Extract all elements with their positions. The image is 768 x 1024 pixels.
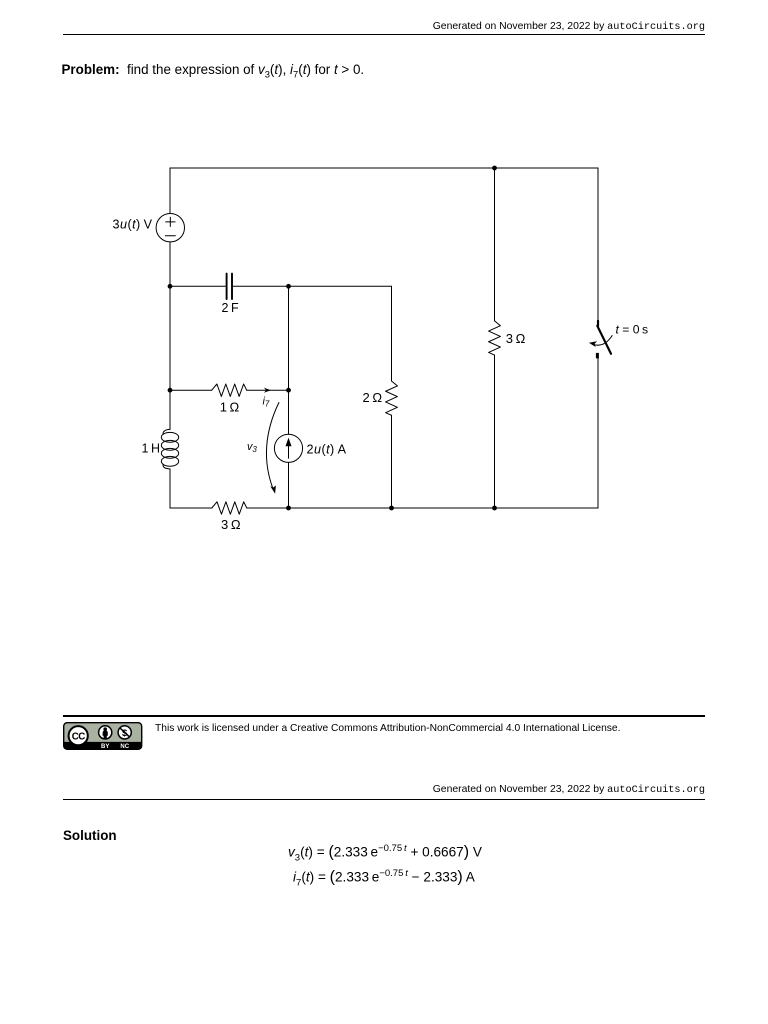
resistor R3 (3 Ohm bottom) xyxy=(212,502,247,514)
wire: resistor row right segment with current arrow xyxy=(247,388,289,393)
badge background xyxy=(64,722,142,749)
voltage source V1 (3u(t) V) xyxy=(156,214,184,242)
resistor R2 (2 Ohm) xyxy=(386,381,398,415)
solution equation 1 xyxy=(288,843,482,863)
resistor R4 (3 Ohm right) xyxy=(489,321,501,355)
node: 2-ohm branch / bottom xyxy=(389,506,394,511)
wire: capacitor row left segment xyxy=(170,285,226,287)
NC (non-commercial) icon xyxy=(118,725,131,738)
switch SW1 (closes at t=0s) xyxy=(589,321,612,359)
v3 polarity arc arrow xyxy=(266,403,278,494)
node: mid rail / capacitor row xyxy=(286,284,291,289)
wire: bottom left segment xyxy=(170,507,212,509)
BY (attribution) icon xyxy=(99,725,112,738)
resistor R1 (1 Ohm) xyxy=(212,384,247,396)
license separator rule (thick) xyxy=(63,715,705,717)
CC license badge xyxy=(63,722,143,750)
svg-text:3 Ω: 3 Ω xyxy=(221,517,241,532)
inductor L1 (1 H) xyxy=(161,429,178,469)
svg-text:BY: BY xyxy=(101,744,109,750)
problem statement xyxy=(62,62,365,80)
wire: mid rail lower xyxy=(288,462,290,508)
svg-text:2 F: 2 F xyxy=(222,301,239,315)
node: 3-ohm branch / top xyxy=(492,166,497,171)
svg-text:1 H: 1 H xyxy=(142,442,160,456)
badge black footer strip xyxy=(64,741,142,748)
svg-text:i7: i7 xyxy=(263,396,270,409)
wire: 3-ohm branch upper xyxy=(494,168,496,321)
svg-text:2u(t) A: 2u(t) A xyxy=(307,442,347,456)
wire: left rail middle (voltage source to inductor) xyxy=(169,242,171,430)
wire: top horizontal xyxy=(170,167,598,169)
svg-text:2 Ω: 2 Ω xyxy=(363,390,383,405)
wire: mid rail upper (node to current source) xyxy=(288,286,290,434)
header: generated-on line xyxy=(0,21,705,33)
footer: generated-on line xyxy=(0,784,705,796)
footer rule xyxy=(63,799,705,800)
node: left rail / resistor row xyxy=(168,388,173,393)
license text xyxy=(155,723,620,734)
svg-text:3u(t) V: 3u(t) V xyxy=(113,218,153,232)
wire: capacitor row right segment xyxy=(232,285,391,287)
wire: 2-ohm branch lower xyxy=(391,415,393,508)
capacitor C1 (2 F) xyxy=(227,274,232,299)
CC logo circle xyxy=(69,726,88,745)
svg-text:t = 0 s: t = 0 s xyxy=(616,323,649,337)
wire: resistor row left segment xyxy=(170,389,212,391)
wire: 2-ohm branch upper xyxy=(391,286,393,381)
node: mid rail / resistor row xyxy=(286,388,291,393)
wire: right rail upper xyxy=(597,168,599,321)
solution equation 2 xyxy=(293,868,475,888)
svg-text:3 Ω: 3 Ω xyxy=(506,331,526,346)
wire: left rail upper (to voltage source) xyxy=(169,168,171,214)
wire: right rail lower xyxy=(597,358,599,508)
wire: left rail lower xyxy=(169,469,171,508)
wire: 3-ohm branch lower xyxy=(494,355,496,508)
node: 3-ohm branch / bottom xyxy=(492,506,497,511)
svg-text:CC: CC xyxy=(72,731,85,742)
svg-text:NC: NC xyxy=(120,744,129,750)
current source I1 (2u(t) A) xyxy=(274,434,302,462)
solution heading xyxy=(63,828,117,843)
node: left rail / capacitor row xyxy=(168,284,173,289)
svg-text:v3: v3 xyxy=(247,441,257,454)
header rule xyxy=(63,34,705,35)
wire: bottom right segment xyxy=(247,507,598,509)
svg-text:1 Ω: 1 Ω xyxy=(220,400,240,415)
node: mid rail / bottom xyxy=(286,506,291,511)
